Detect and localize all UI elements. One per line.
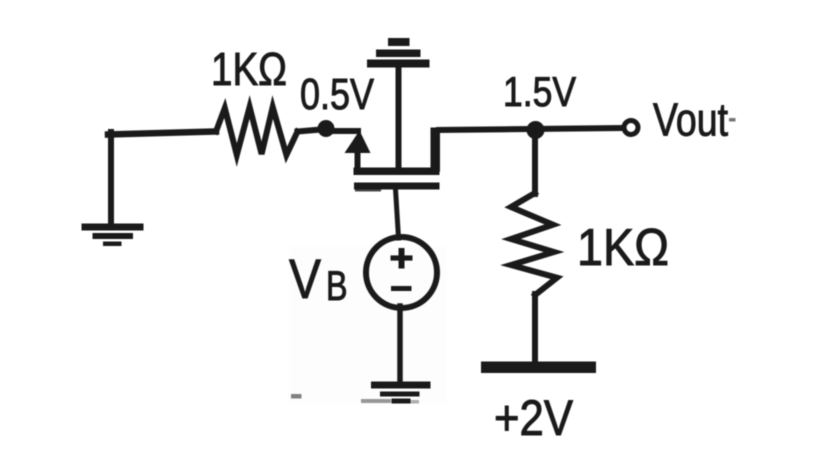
svg-text:1KΩ: 1KΩ [577,219,669,277]
svg-text:V: V [289,247,322,310]
svg-text:B: B [326,262,348,309]
VB minus sign [391,286,412,291]
wire: resistor R1 to node A [298,130,322,132]
terminal Vout open circle [624,121,638,135]
ground (left, GND) [82,224,144,247]
wire: left vertical down to ground [108,132,114,225]
svg-text:1KΩ: 1KΩ [211,43,287,95]
wire: M1 source terminal vertical [355,150,361,169]
wire: M1 body terminal to top supply [396,66,402,168]
wire: resistor R2 down to +2V rail [532,294,538,364]
wire: M1 gate down to source VB [396,189,399,238]
faint scan patch background [289,246,446,404]
svg-text:0.5V: 0.5V [300,70,375,119]
wire: left horizontal from ground branch to resistor R1 [108,132,216,135]
ground (bottom, below VB) [361,382,431,404]
wire: M1 drain terminal vertical [431,128,441,172]
transistor M1 gate bar left smudge [355,188,381,192]
wire: node B down to resistor R2 [532,134,538,194]
wire: drain to output node B horizontal [436,128,624,130]
voltage source VB circle [366,237,437,308]
svg-text:Vout: Vout [653,94,728,146]
wire: VB bottom to ground [397,306,403,384]
resistor R1 (1KΩ input resistor) [216,107,298,155]
transistor M1 channel bar [354,168,440,176]
node A junction dot (0.5V node) [318,120,335,137]
wire: node A to transistor M1 source arrow [333,128,358,134]
resistor R2 (1KΩ load resistor, vertical) [511,193,557,295]
VB plus sign [391,248,413,269]
svg-text:+2V: +2V [494,390,574,446]
power rail +2V bar [481,362,596,374]
transistor M1 source arrow [345,131,371,154]
power symbol (top, inverted ground supply) [367,38,430,68]
node B junction dot (1.5V output node) [527,121,545,139]
stray dash after Vout [729,118,736,122]
svg-text:1.5V: 1.5V [503,68,576,115]
stray scan mark left of bottom ground [291,394,302,399]
transistor M1 gate bar [354,183,440,190]
